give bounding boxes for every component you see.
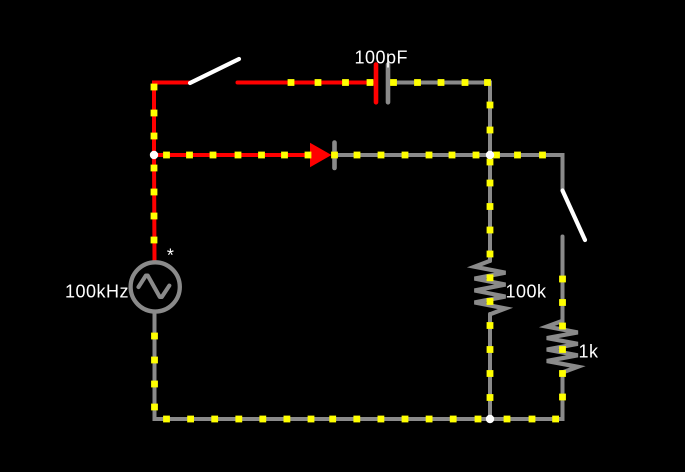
switch S2 (open, right) lever	[563, 191, 586, 241]
wire: AC source V1 to bottom-left corner (gray)	[155, 314, 491, 420]
current flow dots (yellow squares)	[151, 79, 566, 422]
svg-text:1k: 1k	[579, 342, 600, 362]
capacitor C1 100pF right plate (gray)	[386, 65, 391, 103]
diode D1 triangle (red)	[310, 143, 332, 167]
svg-text:100pF: 100pF	[355, 48, 409, 68]
wire: node N1 down to AC source V1 (red)	[152, 155, 157, 261]
svg-text:100k: 100k	[506, 282, 548, 302]
wire: node N2 to switch S2 (gray)	[490, 155, 563, 190]
wire: resistor R1 to bottom node N3 (gray)	[488, 314, 492, 419]
AC source V1 circle	[131, 262, 180, 311]
switch S1 (open, top) lever	[190, 59, 239, 83]
diode D1 cathode bar (gray)	[332, 143, 337, 169]
wire: node N1 to diode D1 anode (red)	[154, 153, 312, 157]
wire: resistor R2 to bottom rail (gray)	[490, 372, 563, 419]
wire: switch S1 to capacitor C1 (red)	[238, 81, 375, 85]
wire: top-left corner to switch S1 (red)	[154, 83, 190, 151]
wire: capacitor C1 to top-right corner, down to node N2 (gray)	[390, 83, 490, 156]
svg-text:*: *	[167, 246, 175, 266]
resistor R1 100k zigzag	[475, 261, 506, 315]
wire: bottom rail node N3 to 1k branch corner (gray)	[490, 417, 563, 421]
AC source V1 sine symbol	[139, 276, 170, 297]
resistor R2 1k zigzag	[547, 321, 578, 373]
svg-text:100kHz: 100kHz	[65, 282, 129, 302]
capacitor C1 100pF left plate (red)	[374, 65, 379, 103]
node N2 junction dot	[486, 151, 494, 159]
wire: switch S2 bottom post to resistor R2 (gray)	[561, 237, 565, 323]
wire: node N2 down to resistor R1 (gray)	[488, 155, 492, 261]
node N1 junction dot	[150, 151, 158, 159]
node N3 junction dot	[486, 415, 494, 423]
wire: diode D1 cathode to node N2 (gray)	[335, 153, 491, 157]
